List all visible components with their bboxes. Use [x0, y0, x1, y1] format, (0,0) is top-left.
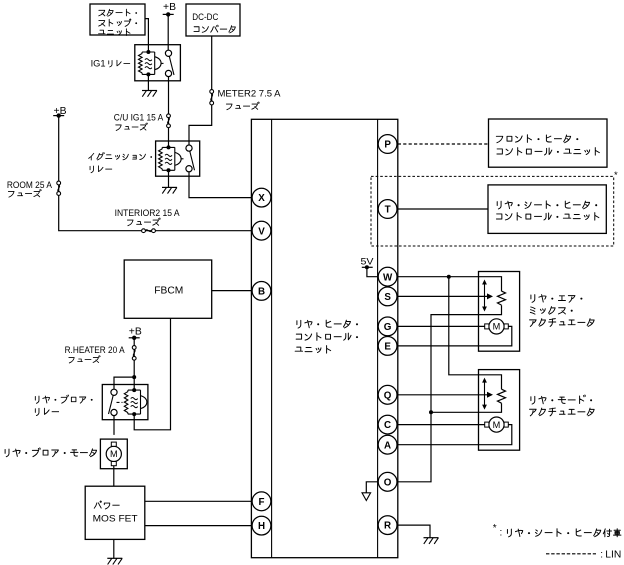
svg-text:O: O: [384, 477, 392, 488]
ground (MOS FET): [107, 557, 122, 559]
svg-text:T: T: [385, 205, 391, 216]
pin G: [378, 317, 397, 336]
start-stop unit box: [90, 4, 145, 35]
motor M (rear blower): [106, 446, 121, 461]
wire ignition coil to ground: [168, 170, 170, 187]
ground (ignition relay): [162, 186, 177, 188]
wire +B to IG1 relay switch: [167, 14, 169, 50]
svg-text:M: M: [110, 449, 118, 459]
svg-text:C: C: [384, 420, 391, 431]
rear blower motor box: [100, 439, 127, 469]
node W branch: [447, 275, 451, 279]
svg-text:P: P: [384, 140, 391, 151]
wire pin P to front heater unit (LIN dashed): [398, 143, 489, 145]
wire 5V to pin W: [367, 267, 378, 276]
power MOS FET box: [85, 486, 145, 539]
svg-text:F: F: [259, 497, 265, 508]
svg-text:M: M: [493, 322, 501, 332]
wire pin S to air-mix wiper: [398, 295, 488, 297]
svg-text:+B: +B: [129, 327, 142, 338]
svg-text:E: E: [384, 342, 391, 353]
fuse INTERIOR2 15A: [142, 229, 146, 233]
air-mix potentiometer: [484, 282, 486, 310]
wire pin T to rear seat heater unit: [398, 208, 488, 210]
rear heater control unit box: [251, 119, 397, 557]
wire pin Q to mode wiper: [398, 394, 488, 396]
svg-text:S: S: [384, 292, 391, 303]
relay IG1 coil: [142, 52, 155, 74]
svg-text:C/U IG1 15 A: C/U IG1 15 A: [114, 112, 164, 122]
wire blower motor to power MOS FET: [113, 466, 115, 486]
relay rear blower link: [117, 401, 123, 403]
wire pin E to air-mix motor return: [398, 326, 512, 346]
pin A: [378, 435, 397, 454]
rear seat heater control unit box: [488, 185, 606, 234]
pin O: [378, 472, 397, 491]
wire pin R to ground: [398, 525, 430, 538]
pin R: [378, 516, 397, 535]
wire pin W to air-mix pot: [398, 277, 502, 292]
relay ignition box: [156, 141, 200, 176]
rear mode actuator label: [531, 396, 535, 404]
wire MOS FET to ground: [113, 539, 115, 558]
svg-text::: :: [500, 528, 503, 539]
pin B: [252, 282, 271, 301]
relay ignition coil: [162, 147, 175, 170]
svg-text::: :: [600, 549, 603, 560]
pin S: [378, 287, 397, 306]
svg-text:R.HEATER 20 A: R.HEATER 20 A: [65, 345, 126, 355]
svg-text:Q: Q: [384, 390, 392, 401]
wire pot commons to pin O: [398, 305, 502, 482]
wire mode pot common: [431, 403, 502, 412]
relay rear blower coil: [128, 390, 141, 414]
rear air-mix actuator label: [531, 295, 535, 303]
node blower relay feed: [132, 375, 136, 379]
pin Q: [378, 385, 397, 404]
svg-text:V: V: [258, 226, 265, 237]
pin W: [378, 267, 397, 286]
ignition relay label: [89, 153, 94, 160]
svg-text:DC-DC: DC-DC: [192, 12, 218, 22]
wire pin C to mode motor: [398, 424, 487, 426]
wire DC-DC to METER2 fuse to ignition relay switch: [189, 36, 212, 145]
pin X: [252, 188, 271, 207]
pin C: [378, 415, 397, 434]
relay ignition link: [181, 158, 186, 160]
svg-text:*: *: [493, 523, 497, 534]
wire +B to blower relay: [133, 338, 135, 390]
pin H: [252, 516, 271, 535]
pin P: [378, 135, 397, 154]
fuse METER2 7.5A: [210, 90, 214, 94]
ground (pin R): [424, 537, 439, 539]
svg-text:M: M: [493, 420, 501, 430]
wire +B through ROOM fuse and INTERIOR2 fuse to pin V: [59, 116, 252, 231]
motor M (air-mix): [489, 319, 504, 334]
fuse ROOM 25A: [57, 181, 61, 185]
svg-text:LIN: LIN: [605, 549, 621, 560]
node pot common junction: [429, 410, 433, 414]
FBCM box: [124, 260, 212, 318]
rear air-mix actuator box: [479, 272, 520, 352]
wire blower switch to blower motor: [113, 416, 115, 435]
mode potentiometer: [484, 380, 486, 408]
wire MOS FET to pin H: [145, 525, 252, 527]
relay IG1 switch: [165, 50, 171, 56]
relay IG1 link: [161, 62, 166, 64]
front heater control unit box: [489, 119, 608, 167]
wire pin A to mode motor return: [398, 425, 512, 445]
dashed option rectangle (rear seat heater): [371, 176, 614, 246]
svg-text:H: H: [258, 521, 265, 532]
wire pin O continuation arrow: [366, 482, 377, 493]
svg-text:W: W: [383, 272, 393, 283]
wire ignition switch to pin X: [189, 172, 252, 198]
wire IG1 switch to C/U IG1 fuse to ignition relay coil: [168, 77, 170, 148]
wire FBCM to pin B: [212, 290, 252, 292]
fuse C/U IG1 15A: [167, 114, 171, 118]
rear blower motor label: [5, 449, 9, 457]
rear heater control unit label: [297, 320, 301, 328]
relay rear blower switch: [111, 389, 117, 395]
svg-text:INTERIOR2 15 A: INTERIOR2 15 A: [115, 208, 181, 218]
ground (IG1 relay): [142, 90, 157, 92]
fuse R.HEATER 20A: [132, 346, 136, 350]
svg-text:MOS FET: MOS FET: [93, 513, 138, 524]
pin V: [252, 221, 271, 240]
svg-text:IG1: IG1: [91, 58, 106, 68]
svg-text:METER2 7.5 A: METER2 7.5 A: [218, 88, 282, 98]
wire MOS FET to pin F: [145, 500, 252, 502]
pin T: [378, 200, 397, 219]
svg-text:A: A: [384, 440, 391, 451]
rear mode actuator box: [479, 370, 520, 451]
relay rear blower box: [102, 385, 148, 420]
wire feed to blower switch: [114, 377, 134, 389]
svg-text:*: *: [614, 170, 618, 181]
motor M (mode): [489, 417, 504, 432]
svg-text:ROOM 25 A: ROOM 25 A: [7, 180, 53, 190]
wire W branch to mode pot: [449, 277, 502, 390]
svg-text:G: G: [384, 322, 392, 333]
svg-text:X: X: [258, 193, 265, 204]
wire IG1 coil to ground: [147, 74, 149, 90]
pin E: [378, 337, 397, 356]
svg-text:R: R: [384, 521, 391, 532]
svg-text:B: B: [258, 287, 265, 298]
rear blower relay label: [35, 396, 39, 403]
svg-text:+B: +B: [163, 2, 176, 13]
wire start-stop to IG1 relay coil: [145, 19, 148, 52]
relay IG1 box: [135, 45, 181, 81]
relay ignition switch: [186, 145, 192, 151]
pin F: [252, 492, 271, 511]
DC-DC converter box: [186, 4, 240, 36]
wire FBCM to blower relay coil: [134, 318, 170, 430]
legend LIN dashed sample: [546, 553, 596, 555]
wire pin G to air-mix motor: [398, 325, 487, 327]
svg-text:FBCM: FBCM: [154, 285, 183, 296]
